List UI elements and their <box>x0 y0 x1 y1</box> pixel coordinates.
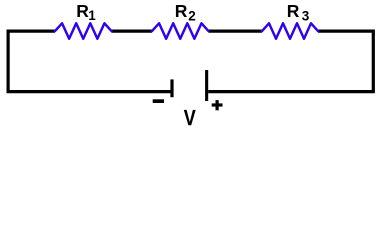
svg-text:1: 1 <box>88 8 96 23</box>
resistor R3 <box>262 23 318 39</box>
plus sign at positive terminal <box>212 100 223 110</box>
wire between R2 and R3 <box>209 30 263 33</box>
minus sign at negative terminal <box>153 99 164 103</box>
svg-text:3: 3 <box>302 9 310 24</box>
wire left loop: top-left corner down to bottom toward battery negative <box>8 31 170 92</box>
battery V negative plate (short bar) <box>170 79 173 97</box>
svg-text:2: 2 <box>188 8 196 23</box>
wire right loop: from R3 to top-right corner down to battery positive <box>208 31 373 92</box>
wire between R1 and R2 <box>112 30 153 33</box>
battery V positive plate (long bar) <box>205 70 208 101</box>
label V (battery voltage) <box>184 110 196 125</box>
resistor R2 <box>152 23 209 39</box>
svg-text:R: R <box>175 1 188 21</box>
svg-text:R: R <box>287 1 300 21</box>
resistor R1 <box>55 23 112 39</box>
